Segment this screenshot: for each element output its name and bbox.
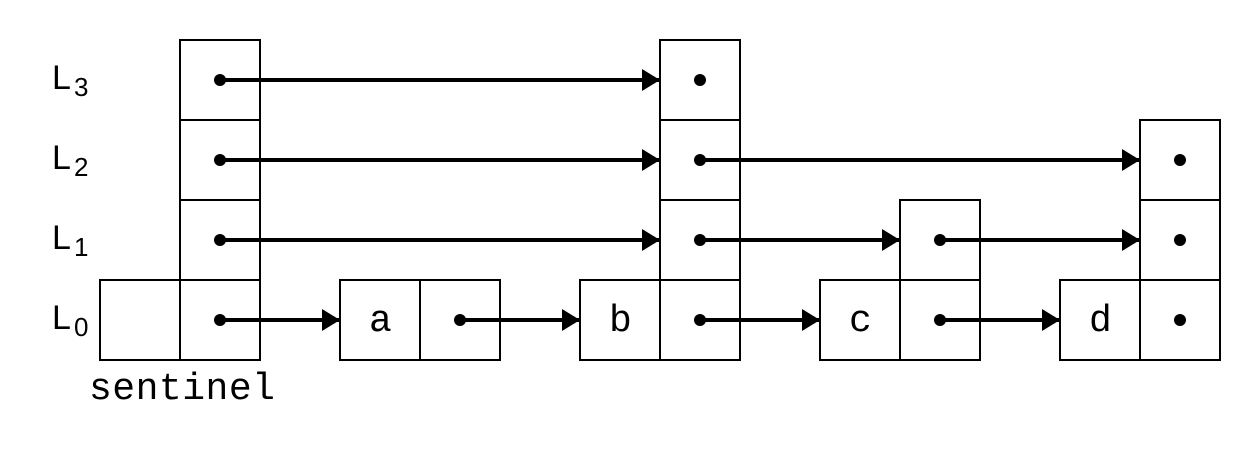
- pointer dot sentinel L3: [214, 74, 226, 86]
- svg-text:sentinel: sentinel: [89, 368, 275, 411]
- svg-text:L: L: [52, 219, 71, 257]
- node c pointer cell level L0: [900, 280, 980, 360]
- arrow sentinel L0 to node a: [220, 318, 339, 322]
- pointer dot b L1: [694, 234, 706, 246]
- arrow b L1 to node c: [700, 238, 899, 242]
- null pointer dot d L0: [1174, 314, 1186, 326]
- svg-text:a: a: [369, 300, 392, 343]
- node b pointer cell level L2: [660, 120, 740, 200]
- pointer dot sentinel L2: [214, 154, 226, 166]
- arrow b L0 to node c: [700, 318, 819, 322]
- row label L0: [52, 299, 88, 342]
- node d pointer cell level L1: [1140, 200, 1220, 280]
- arrow sentinel L3 to node b: [220, 78, 659, 82]
- node c value cell: [820, 280, 900, 360]
- row label L3: [52, 59, 88, 102]
- node d value cell: [1060, 280, 1140, 360]
- svg-text:L: L: [52, 59, 71, 97]
- pointer dot b L2: [694, 154, 706, 166]
- svg-text:d: d: [1089, 300, 1112, 343]
- sentinel pointer cell level L3: [180, 40, 260, 120]
- pointer dot sentinel L0: [214, 314, 226, 326]
- svg-text:L: L: [52, 139, 71, 177]
- arrow c L1 to node d: [940, 238, 1139, 242]
- sentinel data cell (empty, level L0): [100, 280, 180, 360]
- node b pointer cell level L0: [660, 280, 740, 360]
- row label L2: [52, 139, 88, 182]
- null pointer dot b L3: [694, 74, 706, 86]
- svg-text:L: L: [52, 299, 71, 337]
- null pointer dot d L2: [1174, 154, 1186, 166]
- node d pointer cell level L2: [1140, 120, 1220, 200]
- node b pointer cell level L3: [660, 40, 740, 120]
- arrow c L0 to node d: [940, 318, 1059, 322]
- sentinel pointer cell level L1: [180, 200, 260, 280]
- arrow sentinel L1 to node b: [220, 238, 659, 242]
- pointer dot a L0: [454, 314, 466, 326]
- pointer dot c L1: [934, 234, 946, 246]
- node d pointer cell level L0: [1140, 280, 1220, 360]
- svg-text:0: 0: [74, 312, 88, 342]
- sentinel pointer cell level L2: [180, 120, 260, 200]
- node b value cell: [580, 280, 660, 360]
- pointer dot sentinel L1: [214, 234, 226, 246]
- row label L1: [52, 219, 88, 262]
- svg-text:1: 1: [74, 232, 88, 262]
- arrow b L2 to node d: [700, 158, 1139, 162]
- svg-text:c: c: [849, 300, 872, 343]
- node c pointer cell level L1: [900, 200, 980, 280]
- node a value cell: [340, 280, 420, 360]
- svg-text:2: 2: [74, 152, 88, 182]
- sentinel pointer cell level L0: [180, 280, 260, 360]
- pointer dot b L0: [694, 314, 706, 326]
- arrow sentinel L2 to node b: [220, 158, 659, 162]
- svg-text:3: 3: [74, 72, 88, 102]
- pointer dot c L0: [934, 314, 946, 326]
- null pointer dot d L1: [1174, 234, 1186, 246]
- node a pointer cell level L0: [420, 280, 500, 360]
- svg-text:b: b: [609, 300, 632, 343]
- node b pointer cell level L1: [660, 200, 740, 280]
- arrow a L0 to node b: [460, 318, 579, 322]
